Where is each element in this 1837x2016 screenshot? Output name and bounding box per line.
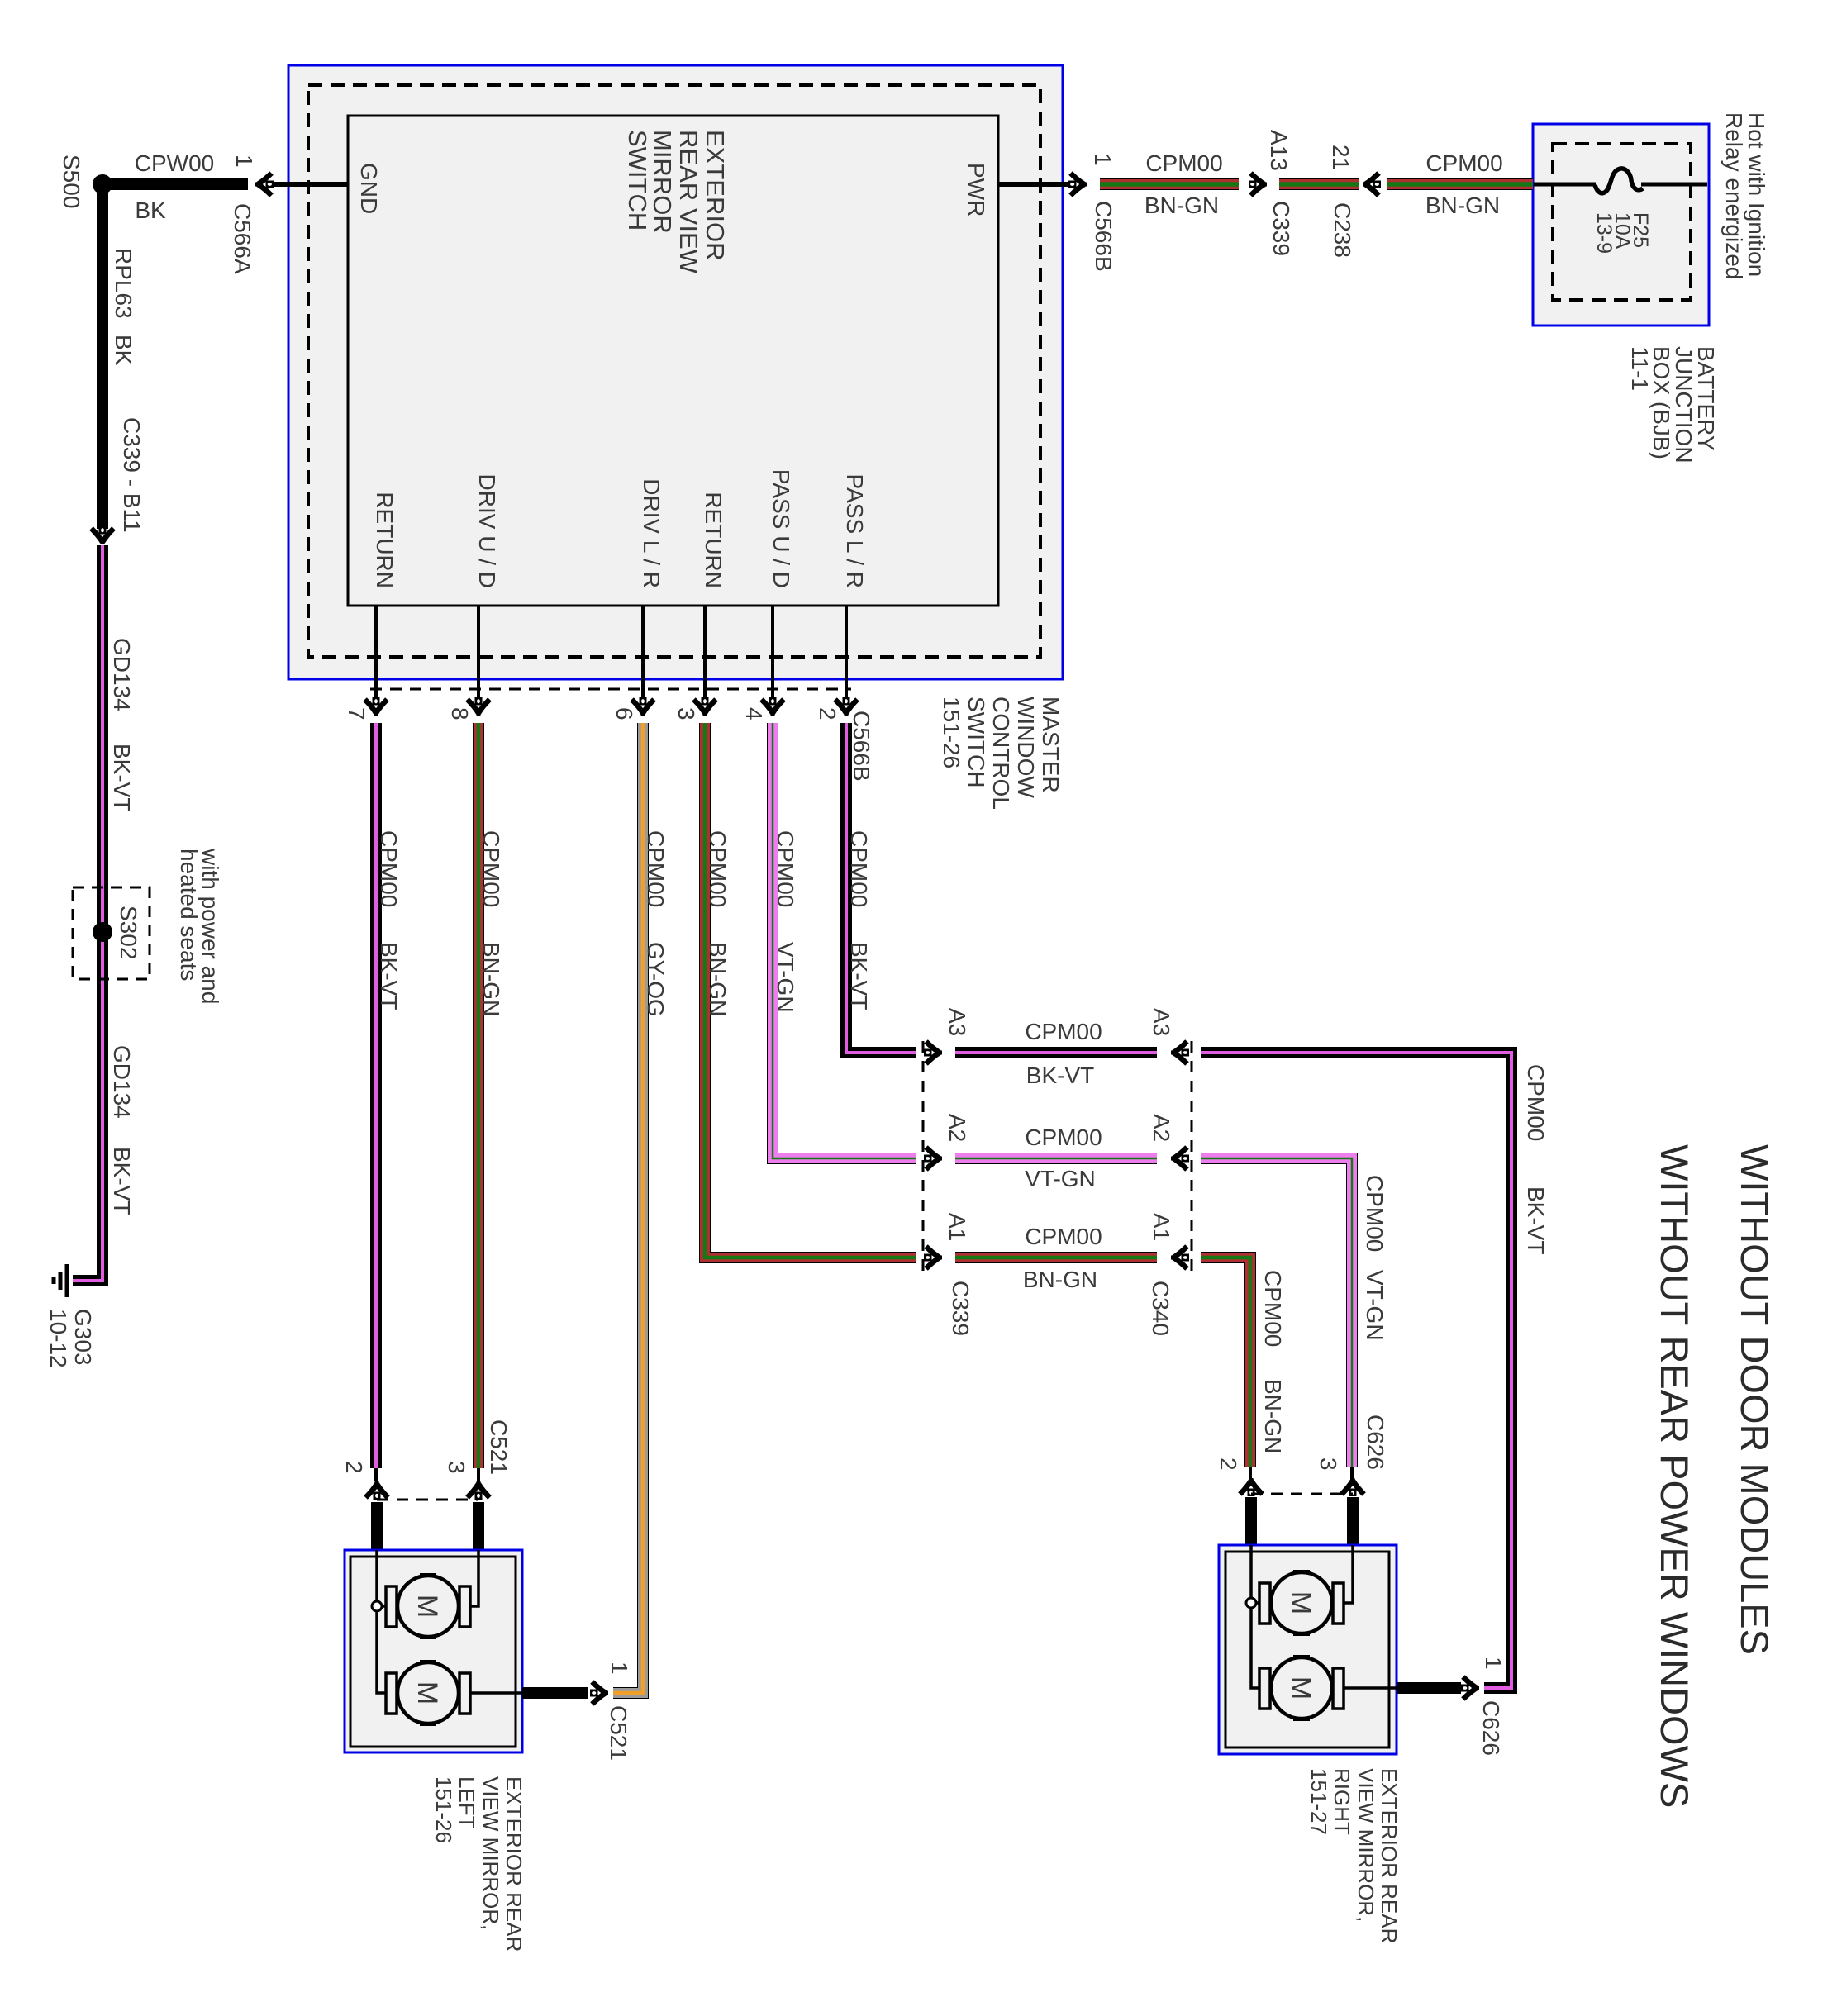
ground G303	[45, 1264, 96, 1368]
GND stub wire	[230, 155, 348, 274]
exterior rear view mirror left box	[345, 1550, 522, 1752]
svg-text:RETURN: RETURN	[372, 492, 397, 588]
connector C339 arrow A13	[1249, 130, 1294, 256]
right mirror connector C626 pins 2 3	[1216, 1415, 1388, 1545]
svg-text:S500: S500	[59, 155, 84, 208]
svg-text:C340: C340	[1148, 1281, 1173, 1336]
svg-text:BK-VT: BK-VT	[109, 744, 135, 811]
svg-text:1: 1	[1481, 1657, 1506, 1670]
svg-text:EXTERIOR: EXTERIOR	[701, 130, 730, 260]
left mirror inner wiring	[372, 1550, 522, 1693]
pin labels bottom row	[372, 469, 868, 588]
svg-text:CPM00: CPM00	[1362, 1175, 1387, 1252]
label: EXTERIOR REAR VIEW MIRROR RIGHT 151-27	[1306, 1768, 1402, 1943]
svg-text:A3: A3	[945, 1008, 970, 1036]
svg-text:GND: GND	[356, 163, 382, 214]
connector arrows pins 7 8 6 3 4 2	[365, 697, 858, 716]
svg-text:M: M	[412, 1595, 443, 1618]
svg-text:Relay energized: Relay energized	[1721, 112, 1747, 279]
svg-text:M: M	[1285, 1676, 1316, 1700]
svg-text:S302: S302	[116, 906, 141, 959]
svg-text:C626: C626	[1363, 1415, 1388, 1470]
svg-text:2: 2	[1216, 1457, 1241, 1471]
svg-text:BN-GN: BN-GN	[1145, 193, 1219, 218]
svg-text:C521: C521	[606, 1705, 631, 1761]
row A2 CPM00 VT-GN	[924, 1114, 1189, 1191]
svg-text:A1: A1	[945, 1213, 970, 1241]
svg-text:A1: A1	[1149, 1213, 1174, 1241]
svg-text:BN-GN: BN-GN	[1260, 1379, 1286, 1453]
label: BATTERY JUNCTION BOX (BJB) 11-1	[1627, 346, 1719, 464]
svg-text:M: M	[1285, 1591, 1316, 1614]
svg-text:BK: BK	[111, 335, 136, 366]
svg-text:EXTERIOR REAR: EXTERIOR REAR	[1377, 1768, 1402, 1943]
svg-text:2: 2	[815, 707, 840, 720]
wire pin6 CPM00 GY-OG	[613, 723, 669, 1693]
motor M right top	[1259, 1570, 1344, 1636]
svg-text:3: 3	[1316, 1457, 1341, 1471]
svg-text:BK: BK	[135, 197, 166, 223]
svg-text:11-1: 11-1	[1627, 346, 1653, 391]
svg-text:DRIV L / R: DRIV L / R	[639, 478, 664, 588]
svg-text:A2: A2	[1149, 1114, 1174, 1142]
svg-text:GD134: GD134	[109, 638, 135, 711]
svg-text:M: M	[412, 1681, 443, 1705]
wire GD134 BK-VT lower labels	[109, 1045, 135, 1215]
label: EXTERIOR REAR VIEW MIRROR SWITCH	[623, 130, 730, 274]
svg-text:CPM00: CPM00	[1145, 150, 1222, 176]
splice S302	[73, 887, 150, 979]
wire pin8 CPM00 BN-GN	[478, 723, 504, 1468]
svg-text:BK-VT: BK-VT	[1523, 1186, 1549, 1254]
svg-text:GD134: GD134	[109, 1045, 135, 1119]
svg-text:151-26: 151-26	[431, 1776, 456, 1843]
master window control switch box	[288, 65, 1063, 679]
motor M left top	[386, 1573, 470, 1639]
svg-text:BK-VT: BK-VT	[109, 1147, 135, 1215]
svg-text:VIEW MIRROR,: VIEW MIRROR,	[478, 1776, 503, 1930]
row A1 CPM00 BN-GN	[924, 1213, 1189, 1336]
svg-text:C521: C521	[486, 1419, 512, 1475]
svg-text:1: 1	[1090, 153, 1116, 166]
svg-text:2: 2	[341, 1461, 367, 1474]
svg-text:BN-GN: BN-GN	[1425, 193, 1500, 218]
exterior rear view mirror right box	[1219, 1545, 1397, 1754]
svg-text:GY-OG: GY-OG	[643, 942, 669, 1017]
svg-text:WITHOUT REAR POWER WINDOWS: WITHOUT REAR POWER WINDOWS	[1653, 1144, 1697, 1808]
connector C339-B11 arrow	[92, 526, 114, 544]
svg-text:CPM00: CPM00	[478, 830, 504, 907]
svg-text:C626: C626	[1478, 1700, 1504, 1756]
svg-text:BK-VT: BK-VT	[1026, 1063, 1094, 1088]
svg-text:CPM00: CPM00	[1425, 150, 1502, 176]
svg-text:A2: A2	[945, 1114, 970, 1142]
wire A2 right CPM00 VT-GN to C626	[1201, 1158, 1387, 1467]
svg-text:C339: C339	[1268, 201, 1294, 256]
svg-text:EXTERIOR REAR: EXTERIOR REAR	[502, 1776, 526, 1952]
connector C340 dashed line	[1191, 1041, 1193, 1271]
switch pin stub lines	[376, 606, 846, 697]
svg-text:BN-GN: BN-GN	[478, 942, 504, 1016]
svg-text:13-9: 13-9	[1592, 212, 1616, 254]
svg-text:BK-VT: BK-VT	[846, 942, 872, 1010]
right mirror inner wiring	[1246, 1545, 1397, 1688]
svg-text:C339: C339	[948, 1281, 973, 1336]
svg-text:151-26: 151-26	[939, 697, 964, 768]
svg-text:WITHOUT DOOR MODULES: WITHOUT DOOR MODULES	[1733, 1144, 1777, 1655]
wire A1 right CPM00 BN-GN to C626	[1201, 1258, 1286, 1467]
svg-text:C566A: C566A	[230, 203, 255, 274]
label: with power and heated seats	[176, 848, 223, 1004]
svg-text:DRIV U / D: DRIV U / D	[474, 474, 500, 588]
motor M right bottom	[1259, 1655, 1344, 1721]
svg-text:VT-GN: VT-GN	[1025, 1166, 1096, 1191]
connector C566B pin 1 arrow (PWR)	[1068, 153, 1116, 272]
wire pin3 CPM00 BN-GN	[705, 723, 916, 1258]
svg-text:C339 - B11: C339 - B11	[119, 417, 145, 533]
splice S500	[59, 155, 112, 208]
label: Hot with Ignition Relay energized	[1721, 112, 1769, 279]
wire CPW00 BK thick	[106, 150, 248, 223]
svg-text:PASS L / R: PASS L / R	[842, 474, 868, 589]
wire pin2 CPM00 BK-VT	[846, 723, 916, 1053]
svg-text:CPW00: CPW00	[135, 150, 214, 176]
wire RPL63 BK vertical	[102, 189, 145, 533]
svg-text:WINDOW: WINDOW	[1013, 697, 1039, 798]
connector C566B dashed line	[370, 688, 851, 691]
svg-text:8: 8	[447, 707, 473, 720]
svg-text:CPM00: CPM00	[643, 830, 669, 907]
svg-text:CPM00: CPM00	[1025, 1224, 1102, 1249]
svg-text:VIEW MIRROR,: VIEW MIRROR,	[1354, 1768, 1378, 1922]
svg-text:RETURN: RETURN	[701, 492, 726, 588]
svg-text:SWITCH: SWITCH	[623, 130, 652, 231]
motor M left bottom	[386, 1660, 470, 1726]
svg-text:CPM00: CPM00	[376, 830, 402, 907]
svg-text:C238: C238	[1330, 202, 1355, 258]
pin number labels	[344, 707, 874, 782]
svg-text:CPM00: CPM00	[773, 830, 798, 907]
left mirror output wire to C521 pin 1	[522, 1662, 632, 1761]
svg-text:CPM00: CPM00	[705, 830, 731, 907]
svg-text:BK-VT: BK-VT	[376, 942, 402, 1010]
svg-text:RIGHT: RIGHT	[1330, 1768, 1354, 1835]
svg-text:CPM00: CPM00	[1025, 1124, 1102, 1150]
svg-text:MASTER: MASTER	[1038, 697, 1064, 793]
svg-text:PASS U / D: PASS U / D	[769, 469, 794, 588]
svg-text:3: 3	[444, 1461, 469, 1474]
wire pin4 CPM00 VT-GN	[773, 723, 916, 1158]
fuse F25 10A 13-9	[1534, 169, 1707, 254]
battery junction box BJB	[1533, 124, 1709, 326]
svg-text:C566B: C566B	[849, 711, 874, 782]
row A3 CPM00 BK-VT	[924, 1008, 1189, 1088]
svg-text:21: 21	[1328, 145, 1354, 170]
svg-text:7: 7	[344, 707, 369, 720]
svg-text:1: 1	[231, 155, 257, 168]
svg-text:151-27: 151-27	[1306, 1768, 1331, 1835]
svg-text:G303: G303	[70, 1309, 96, 1366]
right mirror output wire to C626 pin 1	[1397, 1657, 1506, 1756]
svg-text:CPM00: CPM00	[846, 830, 872, 907]
svg-text:6: 6	[612, 707, 637, 720]
svg-text:CPM00: CPM00	[1523, 1064, 1549, 1141]
svg-text:BN-GN: BN-GN	[705, 942, 731, 1016]
svg-text:C566B: C566B	[1091, 201, 1116, 272]
wire CPM00 BN-GN segment BJB to C238	[1387, 150, 1533, 218]
svg-text:CPM00: CPM00	[1260, 1270, 1286, 1347]
svg-text:RPL63: RPL63	[111, 248, 136, 319]
svg-text:heated seats: heated seats	[176, 849, 202, 981]
svg-text:LEFT: LEFT	[454, 1776, 479, 1829]
svg-text:1: 1	[607, 1662, 632, 1675]
svg-text:CONTROL: CONTROL	[988, 697, 1014, 810]
wire CPM00 BN-GN segment C566B to C339	[1100, 150, 1239, 218]
svg-text:CPM00: CPM00	[1025, 1019, 1102, 1044]
svg-text:3: 3	[673, 707, 699, 720]
label: EXTERIOR REAR VIEW MIRROR LEFT 151-26	[431, 1776, 526, 1952]
svg-text:4: 4	[741, 707, 767, 720]
wire CPM00 BN-GN segment C339 to C238	[1279, 178, 1359, 190]
svg-text:REAR VIEW: REAR VIEW	[674, 130, 703, 274]
svg-text:BN-GN: BN-GN	[1023, 1267, 1097, 1292]
connector C238 arrow	[1328, 145, 1381, 258]
svg-text:VT-GN: VT-GN	[1362, 1270, 1387, 1341]
left mirror connector C521 pins 2 3	[341, 1419, 512, 1550]
wire pin7 CPM00 BK-VT	[376, 723, 402, 1468]
svg-text:A13: A13	[1266, 130, 1292, 171]
PWR stub wire	[998, 182, 1068, 187]
wire A3 right CPM00 BK-VT long run	[1201, 1053, 1549, 1688]
svg-text:VT-GN: VT-GN	[773, 942, 798, 1013]
label: MASTER WINDOW CONTROL SWITCH 151-26	[939, 697, 1064, 810]
wire GD134 BK-VT to S302	[73, 545, 135, 1281]
svg-text:PWR: PWR	[964, 163, 989, 216]
svg-text:A3: A3	[1149, 1008, 1174, 1036]
svg-text:SWITCH: SWITCH	[964, 697, 989, 787]
connector C339 dashed line	[922, 1041, 925, 1271]
svg-text:10-12: 10-12	[45, 1309, 71, 1368]
